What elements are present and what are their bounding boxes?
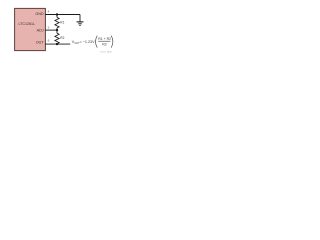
resistor R1 — [55, 17, 65, 28]
wire R1 top lead — [56, 15, 58, 18]
pin label OUT — [36, 41, 45, 45]
resistor R2 — [55, 33, 65, 43]
svg-text:R1: R1 — [60, 20, 64, 24]
Vout formula label — [72, 36, 113, 48]
wire OUT pin to output — [45, 43, 70, 45]
IC U1 LTC1261L body — [15, 8, 46, 50]
svg-text:R1 + R2: R1 + R2 — [98, 37, 111, 41]
node junction GND/R1 — [56, 13, 58, 15]
pin label ADJ — [37, 29, 44, 33]
svg-text:R2: R2 — [60, 36, 64, 40]
svg-text:4: 4 — [48, 10, 50, 14]
svg-text:R2: R2 — [102, 43, 107, 47]
wire R1 bottom lead to ADJ node — [56, 28, 58, 33]
wire GND pin to junction and over to ground drop — [45, 14, 80, 16]
pin number 5 — [48, 26, 50, 30]
node junction OUT/R2 — [56, 43, 58, 45]
node junction ADJ/R1/R2 — [56, 29, 58, 31]
figure tag — [100, 51, 112, 54]
pin number 4 — [48, 10, 50, 14]
svg-text:ADJ: ADJ — [37, 29, 44, 33]
pin number 6 — [48, 38, 50, 42]
wire R2 bottom lead — [56, 43, 58, 45]
svg-text:5: 5 — [48, 26, 50, 30]
pin label GND — [35, 12, 44, 16]
ground symbol — [77, 22, 84, 26]
svg-text:GND: GND — [35, 12, 44, 16]
svg-text:6: 6 — [48, 38, 50, 42]
svg-text:= −1.23V: = −1.23V — [80, 40, 96, 44]
wire ADJ pin stub — [45, 29, 57, 31]
wire ground drop vertical — [79, 15, 81, 22]
svg-text:1261L TA03: 1261L TA03 — [100, 51, 112, 54]
svg-text:LTC1261L: LTC1261L — [19, 22, 36, 26]
svg-text:OUT: OUT — [36, 41, 45, 45]
